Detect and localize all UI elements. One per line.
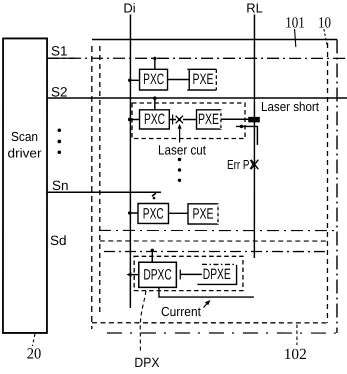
svg-text:PXC: PXC [143, 71, 164, 88]
dummy row connector [180, 273, 202, 275]
leader DPX [140, 291, 146, 353]
svg-text:10: 10 [318, 15, 331, 32]
dummy row connector tick [179, 270, 181, 280]
row3 connector [168, 212, 188, 214]
row2 connector to PXE2 [183, 119, 197, 121]
left ellipsis dots [58, 128, 62, 154]
svg-text:Di: Di [123, 0, 135, 15]
pixel circuit PXC3 [138, 203, 169, 223]
wire Di (data line) [129, 14, 131, 308]
row2 connector tick [172, 114, 174, 124]
svg-text:Current: Current [161, 304, 201, 319]
dummy pixel element DPXE [202, 263, 237, 265]
laser cut X mark [176, 116, 183, 124]
scan driver box [3, 38, 47, 333]
svg-text:DPXE: DPXE [203, 266, 231, 283]
svg-text:PXC: PXC [143, 205, 164, 222]
leader 20 [32, 334, 35, 346]
panel top line [92, 38, 337, 40]
laser cut leader arrow [179, 129, 181, 143]
dot on L-wire [240, 125, 244, 129]
svg-text:Laser cut: Laser cut [158, 142, 206, 157]
row3 left lead [130, 212, 138, 214]
short current L-wire [236, 126, 257, 144]
wire S1 dash-dot [47, 57, 347, 59]
wire Sn [47, 191, 161, 193]
svg-text:Sn: Sn [52, 178, 69, 193]
panel bottom dash-dot [107, 332, 337, 334]
svg-text:RL: RL [246, 1, 263, 16]
svg-text:Sd: Sd [50, 233, 67, 248]
panel right edge dash-dot [336, 40, 338, 334]
leader 10 [324, 29, 327, 45]
dummy row left lead [130, 274, 139, 276]
wire Sd dash-dot [104, 250, 327, 252]
svg-text:driver: driver [8, 145, 43, 160]
outer dashed box right [326, 43, 328, 323]
dashed separator line [100, 240, 328, 242]
current arrow [203, 302, 208, 308]
wire RL (repair line) [253, 15, 255, 258]
svg-text:PXE: PXE [198, 111, 219, 128]
svg-text:DPX: DPX [134, 355, 159, 369]
dummy row lead arrowhead [127, 272, 132, 277]
laser short blob [248, 117, 260, 123]
dashed box around err row [132, 103, 245, 139]
row3 junction dot on Di [128, 211, 131, 214]
separator dash-dot line [99, 229, 337, 231]
pixel element PXE1 [187, 69, 216, 90]
svg-text:Err PX: Err PX [227, 157, 256, 172]
row2 left lead [130, 118, 140, 120]
svg-text:S1: S1 [51, 43, 68, 58]
leader 102 [296, 325, 298, 346]
pixel element PXE3 [188, 204, 218, 224]
row2 junction dot on Di [128, 118, 132, 122]
row2 top junction dot [153, 96, 157, 100]
row1 junction dot on Di [128, 79, 131, 82]
pixel circuit PXC1 [140, 69, 168, 90]
dashed box around dummy row [134, 256, 243, 290]
svg-text:20: 20 [27, 345, 42, 362]
outer dashed box left [91, 46, 93, 329]
Sn end arrow [152, 193, 156, 196]
row2 top lead [154, 98, 156, 110]
svg-text:PXE: PXE [193, 71, 214, 88]
Sn junction dot [153, 197, 156, 200]
row2 connector to laser short [221, 118, 249, 120]
svg-text:102: 102 [284, 346, 307, 363]
leader 101 [295, 29, 296, 47]
dummy row top junction dot [151, 249, 154, 252]
current path wire [159, 287, 254, 297]
svg-text:Scan: Scan [11, 129, 38, 144]
svg-text:PXC: PXC [144, 111, 165, 128]
svg-text:PXE: PXE [192, 206, 213, 223]
inner dashed vertical [99, 46, 101, 312]
pixel circuit PXC2 [140, 110, 170, 129]
row1 top lead [154, 58, 156, 69]
svg-text:DPXC: DPXC [143, 266, 172, 283]
row2 connector lead [169, 118, 176, 120]
row1 left lead [130, 79, 140, 81]
svg-text:Laser short: Laser short [261, 99, 319, 114]
mid ellipsis dots [178, 158, 181, 182]
outer dashed box bottom [92, 322, 328, 324]
wire S2 [47, 97, 347, 99]
row1 top junction dot [153, 57, 156, 60]
dummy row top lead [151, 249, 153, 262]
pixel element PXE2 [197, 110, 221, 129]
scan driver label [8, 129, 43, 161]
err cut X on RL [251, 160, 258, 170]
dummy pixel circuit DPXC [139, 262, 177, 287]
svg-text:101: 101 [285, 15, 305, 32]
row1 connector PXC1-PXE1 [168, 78, 190, 80]
